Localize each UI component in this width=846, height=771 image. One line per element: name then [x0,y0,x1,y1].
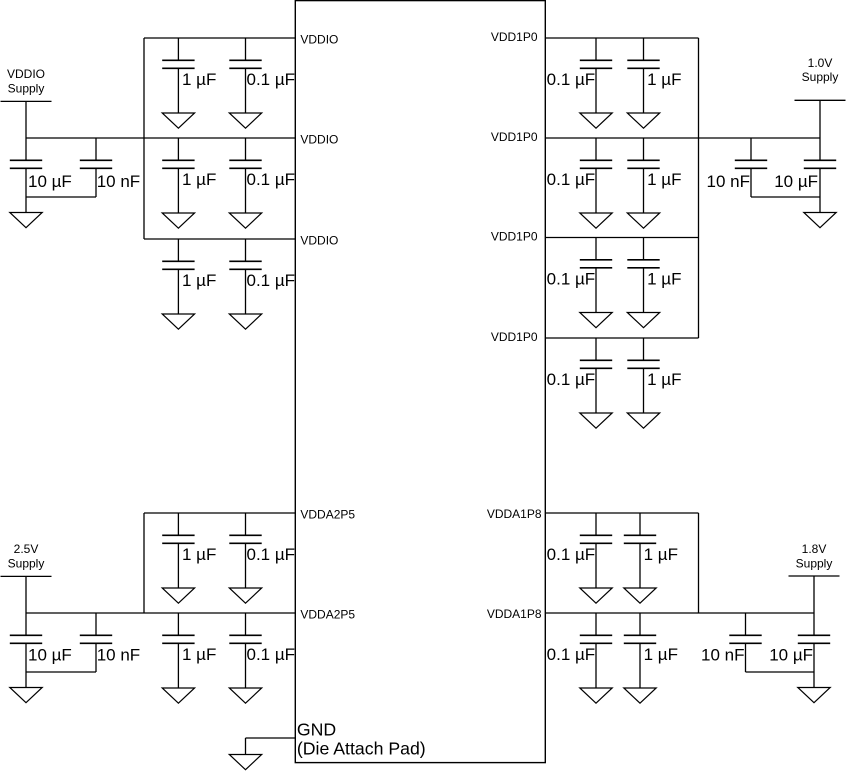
wire VDD1P0 pin4 (y=338) [545,337,698,339]
ground symbol for C7 [10,213,42,228]
wire VDDIO pin1 (y=38) [144,37,295,39]
capacitor C30 10 µF [798,613,830,688]
wire 10nF-10uF bottom link (right top) [751,196,820,198]
capacitor C2 0.1 µF [229,38,261,113]
svg-text:0.1 µF: 0.1 µF [247,545,296,564]
wire VDD1P0 pin3 (y=237.5) [545,237,698,239]
ground symbol for C9 [162,588,194,603]
ground symbol for C11 [162,688,194,703]
capacitor C16 1 µF [627,38,659,113]
ground symbol for C20 [627,313,659,328]
svg-text:VDDIO: VDDIO [300,33,338,47]
svg-text:VDDA2P5: VDDA2P5 [300,508,355,522]
capacitor C29 10 nF [729,613,761,672]
svg-text:1 µF: 1 µF [647,170,681,189]
capacitor C28 1 µF [624,613,656,688]
capacitor C23 10 nF [735,138,767,197]
ground symbol for C6 [229,314,261,329]
ground symbol for C1 [162,113,194,128]
capacitor C1 1 µF [162,38,194,113]
capacitor C6 0.1 µF [229,239,261,314]
ground symbol for C28 [624,688,656,703]
capacitor C24 10 µF [804,138,836,213]
capacitor C13 10 µF [10,613,42,688]
ground symbol for C5 [162,314,194,329]
svg-text:0.1 µF: 0.1 µF [547,170,596,189]
ground symbol for C21 [580,413,612,428]
svg-text:1 µF: 1 µF [182,170,216,189]
svg-text:0.1 µF: 0.1 µF [547,645,596,664]
capacitor C9 1 µF [162,513,194,588]
svg-text:Supply: Supply [802,70,839,84]
wire VDDA2P5 pin1 (y=513) [144,512,295,514]
svg-text:VDD1P0: VDD1P0 [491,130,538,144]
capacitor C8 10 nF [80,138,112,197]
ground symbol for C27 [580,688,612,703]
svg-text:0.1 µF: 0.1 µF [247,170,296,189]
svg-text:Supply: Supply [8,556,45,570]
ground symbol for C10 [229,588,261,603]
svg-text:10 nF: 10 nF [707,172,750,191]
VDDIO Supply supply label [7,67,45,95]
svg-text:10 nF: 10 nF [701,646,744,665]
svg-text:10 µF: 10 µF [28,646,72,665]
capacitor C15 0.1 µF [580,38,612,113]
capacitor C5 1 µF [162,239,194,314]
svg-text:0.1 µF: 0.1 µF [247,271,296,290]
svg-text:VDDA1P8: VDDA1P8 [487,607,542,621]
ground symbol for C19 [580,313,612,328]
wire 10uF-10nF bottom link (left top) [26,196,96,198]
svg-text:1 µF: 1 µF [182,271,216,290]
ground symbol for C2 [229,113,261,128]
ground symbol for C18 [627,213,659,228]
capacitor C18 1 µF [627,138,659,213]
svg-text:10 µF: 10 µF [774,172,818,191]
svg-text:1 µF: 1 µF [644,545,678,564]
ground symbol for C26 [624,588,656,603]
svg-text:0.1 µF: 0.1 µF [547,545,596,564]
ground symbol for C15 [580,113,612,128]
ground symbol for C22 [627,413,659,428]
capacitor C7 10 µF [10,138,42,213]
svg-text:VDDIO: VDDIO [300,133,338,147]
capacitor C14 10 nF [80,613,112,672]
svg-text:1.8V: 1.8V [802,542,827,556]
ground symbol for C4 [229,213,261,228]
wire VDDA2P5 pin2 from supply (y=613) [26,612,295,614]
svg-text:0.1 µF: 0.1 µF [547,370,596,389]
svg-text:(Die Attach Pad): (Die Attach Pad) [297,738,426,758]
capacitor C19 0.1 µF [580,238,612,313]
capacitor C25 0.1 µF [580,513,612,588]
svg-text:1 µF: 1 µF [182,645,216,664]
ground symbol for C30 [798,688,830,703]
ground symbol for C24 [804,213,836,228]
svg-text:2.5V: 2.5V [14,542,39,556]
svg-text:0.1 µF: 0.1 µF [247,70,296,89]
svg-text:0.1 µF: 0.1 µF [547,70,596,89]
svg-text:VDD1P0: VDD1P0 [491,330,538,344]
wire VDDIO bus vertical (x=144) [143,38,145,239]
svg-text:VDDIO: VDDIO [300,234,338,248]
capacitor C3 1 µF [162,138,194,213]
wire VDDIO pin3 (y=239) [144,238,295,240]
capacitor C12 0.1 µF [229,613,261,688]
capacitor C20 1 µF [627,238,659,313]
svg-text:0.1 µF: 0.1 µF [547,270,596,289]
ground symbol for C13 [10,688,42,703]
wire VDD1P0 pin1 (y=38) [545,37,698,39]
wire VDDA1P8 pin1 (y=513) [545,512,698,514]
wire GND pin (y=738) [246,738,296,755]
2.5V Supply supply label [8,542,45,571]
svg-text:10 µF: 10 µF [28,172,72,191]
capacitor C10 0.1 µF [229,513,261,588]
ground symbol for GND pin (die attach pad) [229,755,261,770]
svg-text:1 µF: 1 µF [644,645,678,664]
svg-text:VDDA1P8: VDDA1P8 [487,507,542,521]
IC body (device under decoupling) [295,1,545,763]
svg-text:Supply: Supply [796,556,833,570]
capacitor C17 0.1 µF [580,138,612,213]
svg-text:VDD1P0: VDD1P0 [491,230,538,244]
ground symbol for C25 [580,588,612,603]
svg-text:1 µF: 1 µF [647,270,681,289]
1.0V Supply supply symbol [795,100,846,138]
wire VDDIO pin2 from supply (y=138) [26,137,295,139]
svg-text:VDDA2P5: VDDA2P5 [300,608,355,622]
svg-text:VDDIO: VDDIO [7,67,45,81]
2.5V Supply supply symbol [1,576,52,613]
svg-text:10 nF: 10 nF [97,646,140,665]
ground symbol for C16 [627,113,659,128]
ground symbol for C3 [162,213,194,228]
capacitor C21 0.1 µF [580,338,612,413]
svg-text:10 µF: 10 µF [769,646,813,665]
ground symbol for C12 [229,688,261,703]
ground symbol for C17 [580,213,612,228]
svg-text:Supply: Supply [8,82,45,96]
capacitor C4 0.1 µF [229,138,261,213]
wire VDDA1P8 pin2 to supply (y=613) [545,612,814,614]
capacitor C26 1 µF [624,513,656,588]
svg-text:VDD1P0: VDD1P0 [491,30,538,44]
1.8V Supply supply symbol [789,576,840,613]
capacitor C22 1 µF [627,338,659,413]
svg-text:1 µF: 1 µF [182,70,216,89]
wire 10uF-10nF bottom link (left bottom) [26,671,96,673]
wire VDDA1P8 bus vertical (x=698.5) [698,513,700,613]
capacitor C27 0.1 µF [580,613,612,688]
svg-text:1 µF: 1 µF [647,370,681,389]
1.8V Supply supply label [796,542,833,570]
1.0V Supply supply label [802,56,839,84]
svg-text:10 nF: 10 nF [97,172,140,191]
svg-text:0.1 µF: 0.1 µF [247,645,296,664]
svg-text:1 µF: 1 µF [182,545,216,564]
wire VDD1P0 bus vertical (x=698.5) [698,38,700,338]
svg-text:1 µF: 1 µF [647,70,681,89]
svg-text:1.0V: 1.0V [808,56,833,70]
wire 10nF-10uF bottom link (right bottom) [746,671,815,673]
wire VDDA2P5 bus vertical (x=144) [143,513,145,613]
VDDIO Supply supply symbol [1,101,52,138]
wire VDD1P0 pin2 to supply (y=138) [545,137,820,139]
svg-text:GND: GND [297,720,336,740]
capacitor C11 1 µF [162,613,194,688]
